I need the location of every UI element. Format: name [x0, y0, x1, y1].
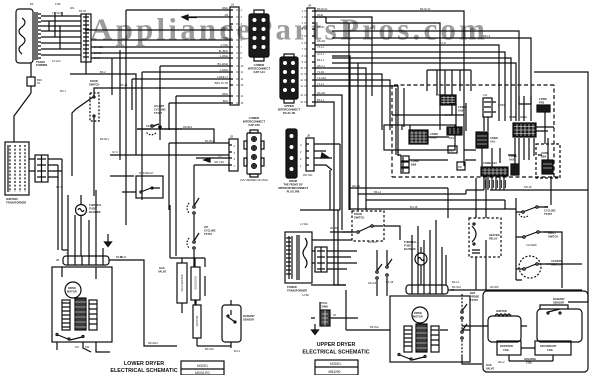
control area big box — [384, 125, 455, 150]
svg-text:BHT: BHT — [470, 291, 476, 295]
svg-text:BET: BET — [449, 149, 454, 153]
svg-text:SENSOR: SENSOR — [553, 301, 564, 305]
svg-text:UPPER INTERCONNECT: UPPER INTERCONNECT — [278, 186, 309, 190]
wires bottom right — [311, 240, 582, 364]
svg-text:VALVE: VALVE — [486, 367, 495, 371]
svg-text:2-BB1: 2-BB1 — [498, 103, 506, 107]
svg-text:COIL: COIL — [547, 348, 554, 352]
upper thermal fuse TF2 — [404, 240, 427, 273]
svg-text:BK-L2: BK-L2 — [483, 34, 491, 38]
wires into J1 — [85, 10, 230, 103]
svg-text:AA1: AA1 — [490, 140, 496, 144]
model table (lower) — [181, 361, 224, 375]
svg-text:ACCESS: ACCESS — [551, 259, 562, 263]
svg-text:1.5 VAC: 1.5 VAC — [52, 11, 62, 15]
svg-text:CAP 2J6: CAP 2J6 — [248, 123, 260, 127]
svg-text:BL-BKE: BL-BKE — [219, 49, 228, 53]
svg-text:BK-BL1: BK-BL1 — [100, 137, 109, 141]
svg-text:1-BKE LT: 1-BKE LT — [217, 75, 228, 79]
svg-text:TSTAT: TSTAT — [470, 298, 478, 302]
svg-text:BLOWER: BLOWER — [89, 210, 101, 214]
upper stat chain (left) — [368, 240, 392, 296]
svg-text:BK-18: BK-18 — [386, 280, 394, 284]
connector J5 — [300, 134, 314, 172]
CONN AA19 — [409, 130, 428, 144]
svg-text:BK-WH: BK-WH — [368, 240, 377, 244]
svg-text:BK-L1: BK-L1 — [317, 58, 325, 62]
svg-text:RADIANT: RADIANT — [243, 314, 255, 318]
svg-text:TSTAT: TSTAT — [154, 111, 162, 115]
1J4 label — [248, 63, 271, 74]
svg-text:COMB AA3: COMB AA3 — [483, 161, 497, 165]
control area wires — [349, 23, 554, 210]
svg-text:BK-BL2: BK-BL2 — [205, 139, 214, 143]
hi-limit probe stat chain — [461, 291, 480, 356]
svg-text:WH-2: WH-2 — [498, 360, 505, 364]
svg-text:SWITCH: SWITCH — [548, 235, 558, 239]
svg-text:THE FRONT OF: THE FRONT OF — [283, 183, 303, 187]
svg-text:CONN: CONN — [509, 115, 517, 119]
dashed console box — [392, 85, 559, 177]
wire fan from J4 — [315, 11, 531, 285]
wires down to J3 — [62, 190, 103, 256]
svg-text:MTR RELAY: MTR RELAY — [139, 171, 154, 175]
svg-text:BK-R1-R: BK-R1-R — [420, 7, 431, 11]
svg-text:WH-1: WH-1 — [470, 27, 477, 31]
svg-text:BK: BK — [30, 2, 34, 6]
svg-text:SECONDARY: SECONDARY — [540, 344, 557, 348]
J4 wire labels — [317, 7, 328, 102]
svg-text:C11: C11 — [483, 93, 488, 97]
CONN BB6 — [401, 156, 409, 173]
svg-text:WH-L2: WH-L2 — [352, 184, 361, 188]
gas valve group (lower) — [158, 205, 255, 351]
svg-text:PLUG 1R: PLUG 1R — [283, 111, 295, 115]
svg-text:HEATER: HEATER — [489, 233, 500, 237]
upper right outer wire box — [466, 72, 588, 302]
upper motor box M2 — [390, 296, 470, 362]
svg-text:THERMAL: THERMAL — [404, 240, 417, 244]
connector 2J6 — [244, 130, 264, 177]
svg-text:MODEL: MODEL — [197, 364, 209, 368]
svg-text:BK-R: BK-R — [120, 255, 126, 259]
connector J3 — [56, 256, 109, 265]
svg-text:4953290: 4953290 — [328, 370, 341, 374]
connector CN3 — [315, 247, 327, 272]
svg-text:L2 BK: L2 BK — [302, 293, 309, 297]
svg-text:GY-2: GY-2 — [112, 150, 118, 154]
ground G1 — [105, 234, 112, 247]
svg-text:LOWER DRYER: LOWER DRYER — [124, 361, 164, 367]
svg-text:RD-BL2: RD-BL2 — [146, 124, 156, 128]
svg-text:BK-WH: BK-WH — [370, 325, 379, 329]
svg-text:1M: 1M — [75, 345, 79, 349]
svg-text:RD-L1: RD-L1 — [436, 93, 444, 97]
svg-text:HI?: HI? — [204, 225, 209, 229]
svg-text:AA2: AA2 — [509, 158, 515, 162]
svg-text:BK-R1: BK-R1 — [317, 25, 325, 29]
svg-text:1-WHE: 1-WHE — [220, 54, 229, 58]
svg-text:CONN: CONN — [430, 132, 438, 136]
svg-text:CYCLING: CYCLING — [204, 229, 216, 233]
holding coil — [509, 348, 553, 365]
svg-text:CLOSED: CLOSED — [526, 243, 537, 247]
svg-text:DOOR: DOOR — [354, 212, 362, 216]
svg-text:FUSE: FUSE — [89, 207, 96, 211]
solenoid 1 — [191, 267, 200, 300]
CONN BB4 — [536, 144, 560, 178]
svg-text:DRIVE: DRIVE — [414, 311, 422, 315]
J1 wire labels — [215, 6, 229, 103]
svg-text:BK-L1: BK-L1 — [374, 190, 382, 194]
svg-text:1-YNE: 1-YNE — [220, 36, 228, 40]
DB1 box — [457, 162, 465, 170]
motor relay K2 — [110, 171, 163, 198]
ignitor — [482, 309, 527, 342]
svg-text:CONN: CONN — [539, 97, 547, 101]
svg-text:CONN: CONN — [490, 136, 498, 140]
svg-text:SENSOR: SENSOR — [243, 318, 254, 322]
svg-text:DRUM: DRUM — [289, 179, 297, 183]
svg-text:RELAY: RELAY — [489, 237, 498, 241]
stat chain (lower, right) — [187, 195, 216, 305]
svg-text:DRIVE: DRIVE — [68, 286, 76, 290]
svg-text:UPPER DRYER: UPPER DRYER — [317, 342, 356, 348]
svg-text:WH: WH — [70, 6, 74, 10]
svg-text:RD-18: RD-18 — [524, 185, 532, 189]
svg-text:RD-YE1: RD-YE1 — [214, 160, 224, 164]
svg-text:BK 20: BK 20 — [79, 9, 87, 13]
plug conn CN2 — [320, 301, 330, 326]
switch S3 hi cycling tstat — [516, 205, 556, 217]
door switch S1 — [72, 79, 103, 196]
svg-text:AA8: AA8 — [458, 109, 464, 113]
mid bus wires — [349, 188, 516, 218]
long wires right top — [444, 104, 531, 115]
model table (upper) — [315, 360, 358, 375]
svg-text:SW: SW — [85, 345, 90, 349]
svg-text:VALVE: VALVE — [158, 270, 167, 274]
svg-text:VALV HEATER: VALV HEATER — [180, 274, 184, 291]
svg-text:IGNITION: IGNITION — [6, 197, 18, 201]
solenoid 2 (ignitor) — [193, 305, 201, 338]
svg-text:PR3: PR3 — [539, 101, 545, 105]
switch S4 vault switch — [516, 231, 558, 247]
wire loop above AA8 — [427, 70, 471, 95]
connector J2 — [229, 135, 238, 172]
svg-text:WHE: WHE — [222, 92, 228, 96]
svg-text:PLUG 2R6: PLUG 2R6 — [287, 190, 300, 194]
wire bundle T1 to TB1 — [41, 12, 81, 55]
svg-text:FORMER: FORMER — [36, 63, 47, 67]
svg-text:WH-BK: WH-BK — [490, 285, 499, 289]
radiant sensor (lower) — [222, 305, 241, 342]
svg-text:WHE: WHE — [222, 6, 228, 10]
svg-text:BLOWER: BLOWER — [404, 247, 416, 251]
svg-text:BU-WHE: BU-WHE — [217, 62, 228, 66]
terminal block PB1 — [5, 142, 29, 195]
connector 1R — [280, 54, 298, 103]
secondary coil — [535, 341, 571, 355]
upper door switch S2 — [342, 211, 384, 241]
thermal fuse blower TF1 (lower) — [76, 203, 103, 216]
BB1 blocks — [447, 127, 462, 140]
wires CN3 right — [327, 251, 357, 269]
ground G2 — [312, 324, 319, 335]
svg-text:BK-2: BK-2 — [100, 70, 106, 74]
heater box (upper right) — [483, 291, 588, 372]
svg-text:HI-LIMIT: HI-LIMIT — [154, 104, 165, 108]
svg-text:CONN: CONN — [320, 305, 328, 309]
power cord wire — [14, 93, 31, 142]
svg-text:BK-L2: BK-L2 — [452, 280, 460, 284]
svg-text:AppliancePartsPros.com: AppliancePartsPros.com — [90, 12, 485, 47]
svg-text:PROBE: PROBE — [470, 295, 479, 299]
BET box — [448, 146, 457, 153]
svg-text:1-BK: 1-BK — [55, 2, 61, 6]
svg-text:BOOSTER: BOOSTER — [500, 344, 513, 348]
svg-text:CYCLING: CYCLING — [544, 209, 556, 213]
upper terminal block PB2 — [285, 232, 312, 283]
wires upper left — [300, 144, 400, 318]
svg-text:MOTOR: MOTOR — [67, 290, 77, 294]
svg-text:CYCLING: CYCLING — [154, 108, 166, 112]
svg-text:ELECTRICAL SCHEMATIC: ELECTRICAL SCHEMATIC — [110, 368, 177, 374]
svg-text:PK-1: PK-1 — [56, 185, 62, 189]
svg-text:1-YNE: 1-YNE — [220, 43, 228, 47]
CONN PR3 — [537, 97, 550, 112]
svg-text:IGNITOR: IGNITOR — [195, 315, 199, 326]
connector CN1 — [29, 155, 48, 182]
svg-text:FUSE: FUSE — [404, 244, 411, 248]
svg-text:POWER: POWER — [287, 285, 297, 289]
svg-text:WH-BL2: WH-BL2 — [148, 341, 158, 345]
switch S5 access switch — [516, 256, 562, 278]
svg-text:GAS: GAS — [159, 266, 165, 270]
wire J3 to gas valve — [109, 255, 177, 346]
svg-text:BU-18: BU-18 — [410, 205, 418, 209]
CONN AA1 — [476, 132, 488, 148]
wires below motor — [57, 342, 110, 352]
booster coil — [497, 341, 521, 355]
svg-text:WH-18: WH-18 — [368, 281, 377, 285]
svg-text:TSTAT: TSTAT — [204, 232, 212, 236]
svg-text:MOTOR: MOTOR — [413, 315, 423, 319]
terminal strip TB1 — [81, 14, 91, 62]
svg-text:BB6: BB6 — [411, 163, 417, 167]
wires CN1 right — [48, 159, 62, 177]
svg-text:RD-YE1: RD-YE1 — [303, 173, 313, 177]
svg-text:BK-WH: BK-WH — [452, 285, 461, 289]
svg-text:1-WHE: 1-WHE — [220, 68, 229, 72]
svg-text:AB: AB — [225, 13, 229, 17]
wires from J5 — [303, 144, 340, 177]
2J6 label — [240, 116, 268, 182]
svg-text:RADIANT: RADIANT — [553, 297, 565, 301]
svg-text:DB: DB — [458, 165, 462, 169]
svg-text:BR1: BR1 — [449, 136, 455, 140]
misc wire labels — [56, 7, 532, 364]
power transformer T1 — [16, 9, 41, 63]
C11 connector — [483, 93, 496, 117]
svg-text:TSTAT: TSTAT — [544, 212, 552, 216]
svg-text:RD-BL2: RD-BL2 — [183, 125, 193, 129]
svg-text:L1 WH: L1 WH — [300, 222, 308, 226]
svg-text:MDG/LPG: MDG/LPG — [195, 371, 210, 375]
svg-text:CAP 1J4: CAP 1J4 — [253, 70, 265, 74]
hi-limit thermostat (left) — [137, 104, 193, 135]
group wires — [170, 205, 231, 348]
svg-text:R1: R1 — [37, 81, 41, 85]
svg-text:WH-R1: WH-R1 — [317, 39, 326, 43]
J2 wire labels — [205, 139, 225, 164]
svg-text:16 VAC: 16 VAC — [52, 59, 61, 63]
svg-text:DOOR: DOOR — [90, 79, 98, 83]
svg-text:COIL: COIL — [503, 348, 510, 352]
svg-text:Y1-R: Y1-R — [440, 41, 446, 45]
svg-text:IGNITOR: IGNITOR — [496, 309, 507, 313]
CONN AA8 — [440, 95, 456, 105]
svg-text:BRN 15-TR: BRN 15-TR — [215, 81, 229, 85]
fuse F1 — [27, 63, 35, 93]
svg-text:CONN: CONN — [458, 105, 466, 109]
svg-text:MODEL: MODEL — [330, 362, 342, 366]
vertical drop wires (left ladder) — [112, 10, 176, 256]
1R label — [278, 104, 301, 115]
upper J6 strip — [406, 285, 454, 294]
connector 1J4 — [249, 10, 269, 61]
svg-text:BK-WH: BK-WH — [205, 347, 214, 351]
COMB AA3 — [481, 161, 508, 190]
valve heater coil — [177, 263, 187, 303]
wire door switch to J1 — [70, 62, 228, 155]
svg-text:WH-BK: WH-BK — [330, 226, 339, 230]
svg-text:GY: GY — [218, 154, 222, 158]
lower schematic title — [110, 361, 177, 374]
2R label — [278, 179, 309, 194]
svg-text:SWITCH: SWITCH — [354, 216, 364, 220]
block AA13 — [509, 115, 536, 137]
svg-text:SOLENOID: SOLENOID — [194, 276, 198, 290]
connector 2R — [286, 129, 297, 178]
motor box M1 — [52, 267, 112, 342]
svg-text:SWITCH: SWITCH — [89, 83, 99, 87]
CONN AA2 — [509, 154, 519, 175]
wires down to J6 — [412, 220, 446, 285]
svg-text:BK-14: BK-14 — [120, 83, 128, 87]
wires into J2 — [110, 129, 229, 210]
svg-text:GAS: GAS — [486, 363, 492, 367]
svg-text:ELECTRICAL SCHEMATIC: ELECTRICAL SCHEMATIC — [302, 350, 369, 356]
svg-text:BU-1: BU-1 — [60, 89, 66, 93]
upper schematic title — [302, 342, 369, 356]
svg-text:TRANSFORMER: TRANSFORMER — [287, 289, 307, 293]
svg-text:TRANSFORMER: TRANSFORMER — [6, 201, 26, 205]
svg-text:1-BKE: 1-BKE — [221, 26, 229, 30]
svg-text:BKE: BKE — [223, 99, 228, 103]
heater relay K1 — [469, 178, 501, 257]
svg-text:BU-3: BU-3 — [234, 349, 240, 353]
svg-text:PLUG: PLUG — [320, 301, 327, 305]
svg-text:(AS VIEWED ON WH): (AS VIEWED ON WH) — [240, 178, 268, 182]
radiant sensor (upper) — [537, 297, 582, 342]
